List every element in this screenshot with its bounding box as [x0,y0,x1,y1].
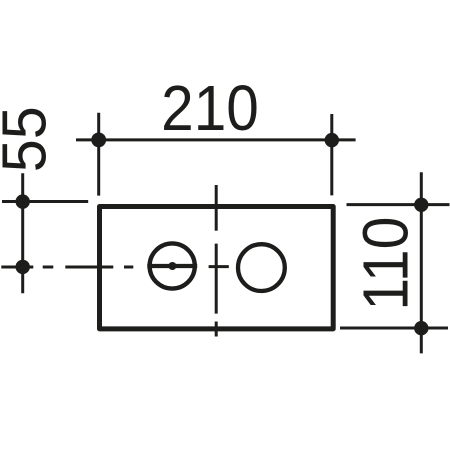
dim 110 bottom tick [340,327,448,330]
vertical centerline dash 3 [215,322,218,337]
dim 55 top dot [16,194,30,208]
horizontal centerline cross tick [209,265,229,268]
svg-text:210: 210 [161,72,259,144]
vertical centerline dash 1 [215,185,218,231]
horizontal centerline dash 1 [43,266,54,269]
svg-text:110: 110 [350,217,422,311]
dim 110 bottom dot [414,321,428,335]
left hole center dot [168,262,176,270]
svg-text:55: 55 [0,106,59,172]
dimension line 55 (left vertical) [21,173,24,293]
horizontal centerline dash 3 [124,266,133,269]
vertical centerline dash 2 [215,244,218,314]
horizontal centerline dash 2 [65,266,113,269]
dim 55 top tick [2,200,88,203]
dimension line 110 (right vertical) [420,172,423,353]
dimension line 210 [76,138,356,141]
dim 210 right dot [325,133,339,147]
dim 110 top dot [414,198,428,212]
plate outline [100,207,334,329]
dim 55 bottom tick [1,266,33,269]
dim 210 right extension line [330,114,333,195]
dim 210 left extension line [97,113,100,196]
dim 210 left dot [91,133,106,148]
dim 55 bottom dot [16,260,30,274]
left hole circle [150,243,195,288]
dim 110 top tick [347,203,450,206]
left hole diameter line [147,264,197,268]
right hole circle [238,244,285,291]
